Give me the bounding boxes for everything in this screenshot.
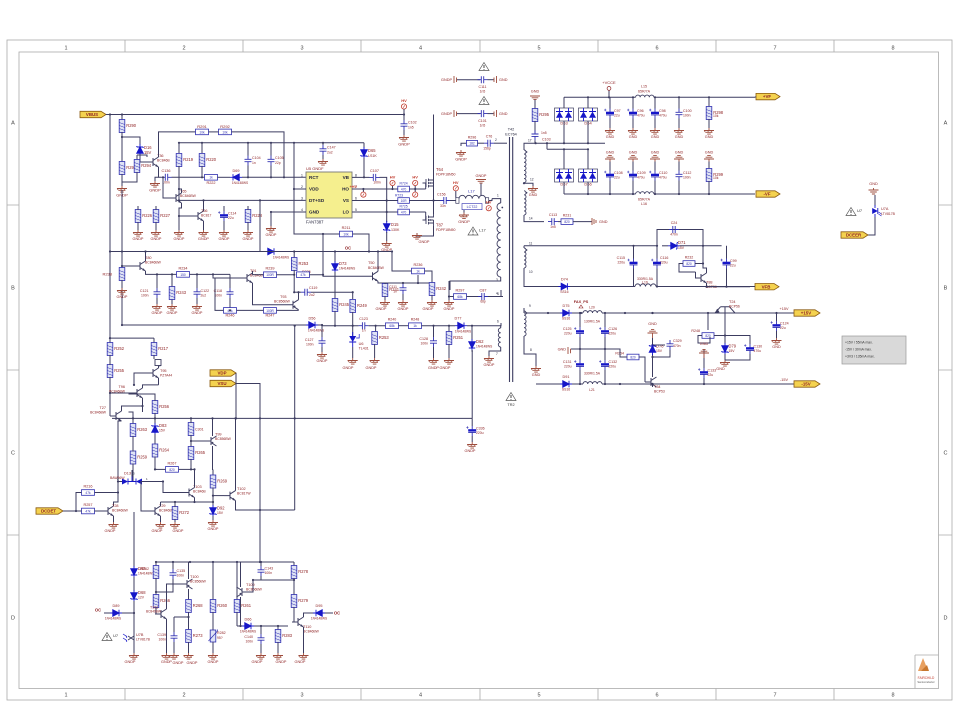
svg-text:D56: D56 — [309, 317, 316, 321]
resistor R723 — [398, 198, 410, 204]
wire — [695, 263, 703, 265]
wire to pin1 — [489, 199, 492, 201]
svg-text:GNDP: GNDP — [125, 660, 136, 664]
svg-text:T42: T42 — [508, 128, 515, 132]
svg-text:100n: 100n — [141, 294, 149, 298]
svg-text:1N4148WS: 1N4148WS — [476, 345, 492, 349]
svg-text:T95: T95 — [160, 369, 167, 373]
svg-text:A: A — [11, 121, 15, 127]
warning TR2 — [506, 393, 516, 401]
wire — [656, 286, 755, 288]
svg-text:DCDET: DCDET — [41, 509, 56, 514]
svg-text:1: 1 — [497, 194, 499, 198]
junctions rail418 — [154, 417, 156, 419]
svg-text:C135: C135 — [177, 569, 186, 573]
inductor L15 — [636, 95, 654, 97]
rail +V — [564, 96, 636, 98]
svg-text:BC846BW: BC846BW — [145, 261, 162, 265]
svg-text:100n: 100n — [265, 571, 273, 575]
svg-text:470u: 470u — [754, 349, 762, 353]
svg-text:C24: C24 — [671, 221, 678, 225]
svg-text:+15V: +15V — [801, 311, 811, 316]
svg-text:+VCCE: +VCCE — [602, 80, 616, 85]
wire — [155, 468, 166, 470]
wire — [698, 336, 710, 344]
svg-text:10k: 10k — [199, 130, 205, 134]
wire — [334, 272, 336, 299]
svg-text:GND: GND — [606, 151, 615, 155]
svg-text:C112: C112 — [683, 171, 691, 175]
svg-text:3: 3 — [300, 46, 303, 52]
svg-text:C156: C156 — [437, 193, 446, 197]
warning — [479, 97, 489, 105]
svg-text:R238: R238 — [102, 272, 112, 277]
resistor R283 — [277, 626, 279, 630]
svg-text:C119: C119 — [309, 286, 317, 290]
svg-text:T28: T28 — [112, 504, 119, 508]
svg-text:D: D — [944, 616, 948, 622]
ground — [170, 522, 180, 528]
net flag DCDET — [36, 508, 63, 514]
svg-text:220u: 220u — [617, 261, 625, 265]
wire — [353, 234, 370, 252]
capacitor C102 — [401, 120, 408, 130]
transistor T109 — [237, 587, 249, 597]
svg-text:GNDP: GNDP — [167, 311, 178, 315]
wire T110 col — [304, 613, 314, 617]
svg-text:T93: T93 — [280, 295, 287, 299]
wire — [653, 350, 671, 357]
svg-text:GND: GND — [606, 135, 615, 139]
wire — [76, 493, 82, 512]
svg-text:GNDP: GNDP — [173, 661, 184, 665]
net HV — [486, 206, 491, 211]
svg-text:GND: GND — [531, 89, 540, 93]
svg-text:DCEER: DCEER — [846, 233, 862, 238]
resistor R296 — [456, 150, 466, 156]
transistor T64 mosfet — [423, 177, 434, 189]
svg-text:GNDP: GNDP — [366, 366, 377, 370]
secondary winding 17-12 — [524, 143, 536, 150]
resistor R253b — [293, 252, 295, 259]
svg-text:U6: U6 — [359, 342, 364, 346]
svg-text:R227: R227 — [160, 213, 171, 218]
net HV a — [392, 186, 394, 189]
svg-text:TL431: TL431 — [359, 347, 369, 351]
wire — [572, 383, 583, 385]
wire — [325, 612, 333, 614]
svg-text:C130: C130 — [754, 345, 763, 349]
svg-text:GNDP: GNDP — [428, 366, 439, 370]
wire — [755, 96, 756, 99]
capacitor C121 — [154, 288, 161, 298]
wire — [109, 377, 111, 411]
capacitor C87 — [478, 293, 488, 300]
wire HV drop — [433, 115, 435, 178]
svg-text:GND: GND — [599, 220, 608, 224]
svg-text:C125: C125 — [563, 327, 572, 331]
ground — [219, 230, 229, 236]
svg-text:1n5: 1n5 — [541, 131, 547, 135]
wire T102 col — [235, 418, 237, 490]
svg-text:D78: D78 — [656, 344, 664, 349]
svg-text:6: 6 — [655, 693, 658, 699]
svg-text:OC: OC — [345, 246, 351, 251]
ground — [117, 186, 127, 192]
wire T87 source — [417, 226, 434, 236]
svg-text:R259: R259 — [137, 455, 148, 460]
svg-text:D66: D66 — [245, 618, 252, 622]
svg-text:65R/7A: 65R/7A — [638, 90, 651, 94]
svg-text:100n: 100n — [683, 114, 691, 118]
svg-text:R246: R246 — [225, 313, 234, 317]
svg-text:GNDP: GNDP — [105, 529, 116, 533]
wire pin11 row — [524, 245, 657, 247]
wire — [471, 350, 473, 352]
svg-text:BCP56: BCP56 — [729, 305, 740, 309]
svg-text:GNDP: GNDP — [198, 237, 209, 241]
resistor R291 — [196, 129, 209, 135]
svg-text:15V: 15V — [217, 511, 224, 515]
resistor R725 — [398, 209, 410, 215]
resistor R260 — [212, 562, 214, 600]
wire OC — [277, 251, 369, 253]
svg-text:3: 3 — [301, 196, 303, 200]
resistor R272 — [172, 507, 178, 520]
svg-text:L17: L17 — [468, 189, 475, 194]
wire T93 col — [298, 292, 300, 300]
dual diode D67 — [555, 169, 574, 182]
svg-text:C87: C87 — [480, 289, 487, 293]
svg-text:470: 470 — [401, 187, 407, 191]
wire T27 emi — [114, 421, 122, 506]
svg-text:1N4148WS: 1N4148WS — [339, 267, 355, 271]
svg-text:GNDP: GNDP — [376, 307, 387, 311]
svg-text:LO: LO — [343, 210, 350, 215]
wire — [253, 274, 264, 276]
svg-text:FAX_PS: FAX_PS — [574, 300, 589, 304]
svg-text:100n: 100n — [373, 181, 381, 185]
resistor R241 — [382, 284, 388, 297]
capacitor C118 — [227, 288, 234, 298]
capacitor C100 — [678, 97, 680, 108]
svg-text:R248: R248 — [411, 318, 420, 322]
svg-text:GNDP: GNDP — [484, 363, 495, 367]
svg-text:9: 9 — [529, 304, 531, 308]
diode D69 — [218, 176, 231, 178]
wire — [95, 492, 119, 494]
svg-text:U7: U7 — [857, 208, 863, 213]
svg-text:R253: R253 — [299, 261, 310, 266]
svg-text:L16: L16 — [641, 202, 647, 206]
svg-text:GNDP: GNDP — [117, 295, 128, 299]
svg-text:4: 4 — [497, 292, 499, 296]
diode D56 — [306, 322, 318, 328]
svg-text:L15: L15 — [641, 85, 647, 89]
wire T88 col — [703, 264, 707, 274]
wire OC drop — [260, 200, 265, 251]
wire T99 base — [191, 440, 205, 442]
svg-text:C124: C124 — [780, 322, 789, 326]
net flag VBUS — [80, 111, 106, 117]
svg-text:BC817: BC817 — [201, 214, 211, 218]
primary winding 1-3 — [492, 199, 501, 203]
diode D65b — [131, 566, 137, 578]
wire VBUS bus — [106, 114, 404, 116]
svg-text:FAN7387: FAN7387 — [306, 220, 324, 225]
wire — [425, 271, 433, 283]
svg-text:GNDP: GNDP — [192, 311, 203, 315]
wire x134 chain — [133, 512, 135, 567]
wire T91 emi — [253, 283, 288, 305]
svg-text:1: 1 — [64, 46, 67, 52]
optocoupler U7B — [123, 631, 134, 645]
wire — [190, 273, 231, 275]
svg-text:+VF: +VF — [763, 94, 771, 99]
link — [153, 355, 155, 359]
svg-text:1n5: 1n5 — [480, 90, 486, 94]
svg-text:R725: R725 — [400, 204, 408, 208]
ground — [208, 520, 218, 526]
wire T27 col — [122, 406, 143, 411]
svg-text:C143: C143 — [265, 567, 274, 571]
capacitor C116 — [656, 246, 658, 259]
svg-text:R234: R234 — [178, 266, 187, 270]
resistor R273 — [186, 630, 192, 643]
wire — [422, 325, 456, 327]
svg-text:R291: R291 — [197, 124, 207, 129]
svg-text:Semiconductor: Semiconductor — [917, 680, 934, 684]
svg-text:C99: C99 — [730, 259, 737, 263]
ground — [129, 653, 139, 659]
svg-text:470u: 470u — [659, 114, 667, 118]
svg-text:B: B — [11, 286, 15, 292]
diode D77 — [455, 323, 467, 329]
resistor R297 — [454, 294, 467, 300]
svg-text:820: 820 — [169, 468, 175, 472]
wire mid — [571, 348, 611, 350]
svg-text:A: A — [944, 121, 948, 127]
svg-text:-15V: -15V — [780, 378, 788, 382]
svg-text:BC856BW: BC856BW — [190, 580, 207, 584]
svg-text:2u2: 2u2 — [201, 294, 207, 298]
resistor R211 — [340, 231, 353, 237]
svg-text:22u: 22u — [730, 264, 736, 268]
capacitor C135 — [172, 562, 174, 569]
svg-text:1n: 1n — [252, 161, 256, 165]
wire to RCT — [232, 132, 285, 177]
wire pin17 node — [534, 140, 536, 143]
svg-text:T87: T87 — [436, 223, 444, 228]
wire — [229, 274, 231, 288]
svg-text:1n5: 1n5 — [550, 225, 556, 229]
svg-text:GNDP: GNDP — [398, 142, 410, 147]
wire T95 emi — [158, 378, 160, 385]
wire — [386, 232, 388, 241]
svg-text:1N4148WS: 1N4148WS — [138, 572, 154, 576]
svg-text:T34: T34 — [654, 385, 661, 389]
transistor T36 — [147, 157, 159, 167]
rail +V right — [654, 96, 755, 98]
wire — [409, 188, 425, 190]
svg-text:C336: C336 — [476, 427, 485, 431]
transistor T88 — [695, 273, 707, 283]
resistor R259 — [130, 451, 136, 464]
svg-text:R264: R264 — [159, 448, 170, 453]
resistor R250b — [707, 313, 709, 330]
capacitor C132 — [604, 349, 606, 360]
ground — [299, 653, 309, 659]
svg-text:4: 4 — [301, 208, 303, 212]
wire pin9 row — [523, 308, 525, 313]
svg-text:GND: GND — [705, 151, 714, 155]
svg-text:U7B: U7B — [136, 633, 144, 637]
wire R256-rail — [154, 413, 156, 418]
resistor R257 — [82, 508, 95, 514]
svg-text:T66: T66 — [201, 209, 208, 213]
capacitor C104 — [245, 156, 252, 166]
resistor R263 — [130, 424, 136, 437]
svg-text:GNDP: GNDP — [276, 660, 287, 664]
wire T29 col — [160, 502, 162, 506]
wire — [467, 296, 479, 298]
ground T87 — [412, 233, 422, 239]
ground — [382, 241, 392, 247]
svg-text:C128: C128 — [419, 337, 428, 341]
ground — [528, 186, 538, 192]
net +VCCE — [608, 90, 610, 97]
wire HO — [352, 188, 398, 190]
diode D89 — [104, 612, 110, 614]
svg-text:1n: 1n — [362, 329, 366, 333]
svg-text:R211: R211 — [342, 226, 351, 230]
svg-text:C123: C123 — [359, 317, 368, 321]
wire T50 base drop — [322, 234, 324, 275]
resistor R293 — [119, 162, 125, 175]
dual diode D66b — [579, 169, 598, 182]
pin2 stub — [494, 142, 507, 144]
wire — [321, 347, 323, 352]
wire T80 emi — [146, 271, 177, 274]
svg-text:GNDP: GNDP — [174, 237, 185, 241]
ground — [444, 358, 454, 364]
diode D91 — [560, 381, 572, 387]
svg-text:R292: R292 — [220, 124, 230, 129]
rail y562 — [156, 561, 294, 563]
wire — [212, 516, 214, 520]
svg-text:GND: GND — [869, 182, 878, 186]
svg-text:HV: HV — [401, 98, 407, 103]
svg-text:SS16: SS16 — [560, 290, 568, 294]
wire T103 base — [163, 482, 183, 493]
wire — [868, 217, 875, 235]
dual diode D13 — [118, 477, 146, 485]
capacitor C126s — [604, 313, 606, 327]
svg-text:68p: 68p — [480, 300, 486, 304]
capacitor C131 — [579, 349, 581, 360]
wire T66 collector — [203, 200, 205, 211]
svg-text:100n: 100n — [420, 342, 428, 346]
net flag DCEER — [841, 232, 868, 238]
wire — [450, 200, 456, 202]
svg-text:R296: R296 — [468, 135, 477, 139]
ground — [399, 135, 409, 141]
resistor R232 — [702, 246, 704, 264]
wire T29 emi — [160, 516, 162, 522]
svg-text:R267: R267 — [167, 461, 176, 465]
svg-text:2u2: 2u2 — [327, 151, 333, 155]
svg-text:182: 182 — [469, 142, 475, 146]
svg-text:U5 GNDF: U5 GNDF — [306, 166, 324, 171]
svg-text:95?: 95? — [217, 636, 223, 640]
svg-text:C111: C111 — [478, 85, 486, 89]
resistor R266 — [153, 595, 159, 608]
svg-text:R247: R247 — [265, 313, 274, 317]
svg-text:47k: 47k — [300, 273, 306, 277]
ground — [167, 304, 177, 310]
svg-text:10k: 10k — [713, 176, 719, 180]
wire VDP drop — [235, 373, 237, 418]
svg-text:4: 4 — [419, 46, 422, 52]
transistor T50 — [367, 271, 379, 281]
svg-text:GNDP: GNDP — [465, 449, 476, 453]
inductor L20 — [583, 311, 602, 313]
svg-text:R249: R249 — [357, 303, 368, 308]
transistor T99 — [205, 436, 217, 446]
svg-text:R222: R222 — [206, 181, 215, 185]
capacitor C105 — [268, 156, 275, 166]
ground — [448, 297, 450, 301]
wire — [409, 211, 425, 213]
resistor R240 — [386, 323, 399, 329]
svg-text:GNDP: GNDP — [317, 359, 328, 363]
wire — [449, 296, 454, 298]
svg-text:LS1K: LS1K — [368, 154, 377, 158]
svg-text:10: 10 — [529, 270, 533, 274]
transistor T96 — [131, 388, 143, 398]
svg-text:R266: R266 — [160, 598, 171, 603]
transistor T102 — [224, 491, 236, 501]
ground — [380, 300, 390, 306]
wire C336 drop — [471, 350, 473, 418]
svg-text:GND: GND — [532, 373, 541, 377]
svg-text:6: 6 — [497, 320, 499, 324]
wire T50 col — [377, 252, 379, 272]
wire T34 col — [652, 354, 654, 377]
ground — [348, 358, 358, 364]
svg-text:220u: 220u — [660, 261, 668, 265]
svg-text:1N4148WS: 1N4148WS — [232, 181, 248, 185]
wire VDD down — [294, 189, 340, 234]
svg-text:D91: D91 — [563, 375, 570, 379]
svg-text:1N4148WS: 1N4148WS — [455, 330, 471, 334]
resistor R268 — [186, 600, 192, 613]
ground — [370, 358, 380, 364]
svg-text:GNDP: GNDP — [173, 529, 184, 533]
wire pin8 row — [536, 383, 561, 385]
svg-text:GNDP: GNDP — [187, 661, 198, 665]
gnd arrow — [573, 221, 592, 223]
svg-text:GND: GND — [309, 210, 320, 215]
svg-text:HV: HV — [390, 175, 396, 180]
ground — [174, 230, 184, 236]
svg-text:C126: C126 — [609, 327, 618, 331]
svg-text:C136: C136 — [161, 169, 170, 173]
rail y418 — [112, 417, 472, 419]
capacitor C103 — [532, 130, 539, 140]
warning U7 — [102, 633, 112, 641]
wire T65 base — [163, 177, 170, 198]
